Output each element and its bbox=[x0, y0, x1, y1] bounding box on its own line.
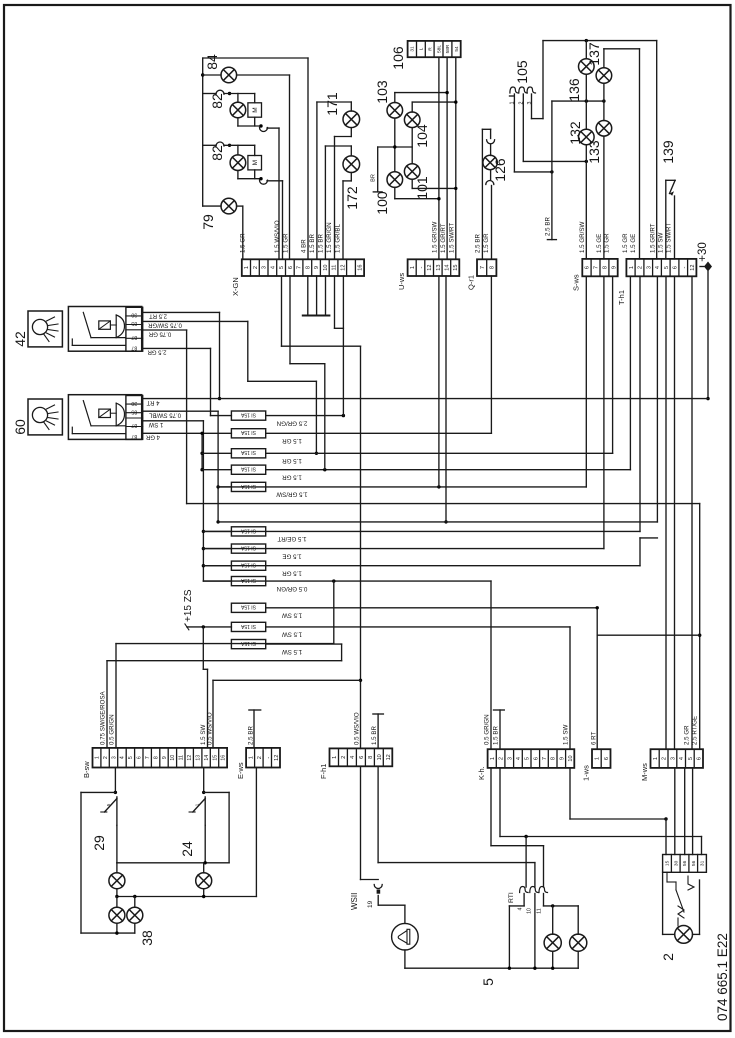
svg-text:11: 11 bbox=[536, 908, 542, 913]
relay 60 wire 1 SW to fuse rows 6-9 bus bbox=[143, 420, 204, 422]
svg-text:3: 3 bbox=[262, 266, 268, 269]
wire T pin 12 drop to M strip pin 5 bbox=[691, 276, 693, 749]
svg-text:1: 1 bbox=[248, 756, 254, 759]
svg-text:8: 8 bbox=[305, 266, 311, 269]
lamp 101 bbox=[404, 164, 420, 180]
wire fuse row 9 branch to B pin 3 bbox=[333, 581, 335, 644]
svg-text:1.5 GR: 1.5 GR bbox=[604, 233, 611, 253]
svg-text:38: 38 bbox=[139, 930, 155, 946]
wire U pin 13 drop to fuse row 5 bbox=[438, 276, 440, 487]
svg-text:87: 87 bbox=[131, 345, 137, 351]
svg-text:1: 1 bbox=[595, 757, 601, 760]
switch 139 bbox=[665, 180, 667, 259]
svg-text:58L: 58L bbox=[436, 45, 442, 53]
svg-text:10: 10 bbox=[170, 755, 176, 761]
svg-text:4: 4 bbox=[679, 757, 685, 760]
connector 106 bbox=[408, 41, 461, 57]
svg-text:106: 106 bbox=[390, 46, 406, 70]
svg-text:SI 15A: SI 15A bbox=[240, 449, 256, 455]
svg-text:10: 10 bbox=[323, 264, 329, 270]
wire lamp 104 top to 54 wire bbox=[411, 102, 413, 112]
wire 105 pin 3 up over to T pin 4 bbox=[531, 94, 533, 119]
svg-text:11: 11 bbox=[179, 755, 185, 760]
wire 105 pin 2 to lamp 132 string bbox=[522, 94, 524, 161]
svg-text:K-h.: K-h. bbox=[477, 766, 486, 780]
svg-text:1: 1 bbox=[653, 757, 659, 760]
svg-text:2: 2 bbox=[257, 756, 263, 759]
svg-text:13: 13 bbox=[436, 264, 442, 270]
svg-text:1-ws: 1-ws bbox=[582, 765, 591, 781]
svg-text:+30: +30 bbox=[697, 242, 709, 262]
motor M of upper unit 82 bbox=[248, 103, 262, 117]
svg-text:1.5 GR: 1.5 GR bbox=[282, 437, 302, 444]
connector strip Q bbox=[477, 259, 496, 276]
svg-text:1.5 SW: 1.5 SW bbox=[658, 233, 665, 253]
motor M of lower unit 82 bbox=[248, 156, 262, 170]
svg-text:+15 ZS: +15 ZS bbox=[183, 589, 194, 622]
svg-text:9: 9 bbox=[162, 756, 168, 759]
svg-text:1.5 BR: 1.5 BR bbox=[371, 726, 378, 745]
svg-text:-: - bbox=[265, 757, 271, 759]
wire Q pin 7 riser bbox=[481, 129, 483, 259]
svg-text:30: 30 bbox=[131, 312, 137, 318]
svg-text:SI 15A: SI 15A bbox=[240, 466, 256, 472]
svg-text:1.5 BR: 1.5 BR bbox=[493, 726, 500, 745]
wire branch 6 RT to 1-ws pin 1 bbox=[597, 634, 700, 636]
wire lamp 171 top to X pin 9 bbox=[350, 102, 352, 111]
fuse SI 15A row 5 bbox=[231, 482, 265, 491]
ground bar 1.5 BR above F strip bbox=[377, 714, 379, 748]
svg-text:4: 4 bbox=[655, 266, 661, 269]
svg-text:6: 6 bbox=[288, 266, 294, 269]
ground stub BR near lamp 172 bbox=[377, 147, 379, 192]
wire right return drop bbox=[204, 791, 229, 793]
wire lamp 171 bottom to X pin 11 bbox=[350, 128, 352, 137]
svg-text:15: 15 bbox=[665, 860, 671, 866]
wire fuse row 8 run with jog to T pin 4 riser bbox=[203, 565, 640, 567]
svg-text:F-h1: F-h1 bbox=[319, 764, 328, 779]
connector strip F bbox=[330, 748, 393, 766]
svg-text:85: 85 bbox=[131, 320, 137, 326]
svg-text:1.5 GE: 1.5 GE bbox=[282, 552, 301, 559]
svg-text:103: 103 bbox=[374, 80, 390, 104]
svg-text:1.5 GE/RT: 1.5 GE/RT bbox=[277, 535, 306, 542]
wire fuse rows 6-9 left stubs bbox=[203, 530, 231, 532]
svg-text:SI 15A: SI 15A bbox=[240, 577, 256, 583]
fuse SI 15A row 3 bbox=[231, 449, 265, 458]
horn WSII bbox=[392, 923, 419, 950]
lamp 100 bbox=[387, 172, 403, 188]
lamp 103 bbox=[387, 103, 403, 119]
fuse SI 15A row 7 bbox=[231, 544, 265, 553]
wire lamp 172 bottom to X pin 12 bbox=[350, 173, 352, 181]
svg-text:SI 15A: SI 15A bbox=[240, 604, 256, 610]
lamp 126 bbox=[490, 145, 492, 156]
connector hook below lamp 126 bbox=[490, 170, 492, 180]
svg-text:54: 54 bbox=[454, 46, 460, 52]
svg-text:2: 2 bbox=[662, 757, 668, 760]
svg-text:12: 12 bbox=[386, 754, 392, 760]
svg-text:42: 42 bbox=[12, 331, 28, 347]
svg-text:12: 12 bbox=[427, 264, 433, 270]
svg-text:2.5 RT/GE: 2.5 RT/GE bbox=[692, 716, 699, 745]
wire lamp 84 to X pin 6 bbox=[237, 74, 290, 76]
wire K pin 2 drop along 836 to relay 2 pin 31 bbox=[499, 768, 501, 837]
connector strip T bbox=[626, 259, 696, 276]
svg-text:10: 10 bbox=[527, 908, 533, 914]
svg-text:0.5 WS/VIO: 0.5 WS/VIO bbox=[207, 712, 214, 745]
fuse SI 15A row 4 bbox=[231, 465, 265, 474]
lamp 2 bbox=[675, 926, 693, 944]
svg-text:SI 15A: SI 15A bbox=[240, 544, 256, 550]
connector hook 19 bbox=[374, 885, 382, 889]
lamp 38 right bbox=[134, 897, 136, 907]
svg-text:4: 4 bbox=[518, 907, 524, 910]
svg-text:13: 13 bbox=[195, 755, 201, 761]
relay 42 wire 2.5 RT to +30 rail bbox=[143, 311, 220, 313]
svg-text:6: 6 bbox=[604, 757, 610, 760]
wire lamp 100 bottom to 58L wire bbox=[394, 187, 396, 198]
wire under lower 82 to X pin 5 bbox=[237, 171, 239, 179]
svg-text:6 RT: 6 RT bbox=[591, 731, 598, 745]
svg-text:6: 6 bbox=[137, 756, 143, 759]
connector strip K bbox=[488, 749, 575, 768]
relay 42 wire 2.5 GR to fuse row 1 bbox=[143, 347, 211, 349]
svg-text:5: 5 bbox=[688, 757, 694, 760]
svg-text:2.5 RT: 2.5 RT bbox=[149, 313, 167, 319]
svg-text:8: 8 bbox=[368, 756, 374, 759]
headlamp icon box of relay 42 bbox=[28, 311, 62, 347]
fuse bus rows 2-4 bbox=[201, 433, 203, 469]
relay 60 body bbox=[68, 395, 141, 440]
svg-text:7: 7 bbox=[480, 266, 486, 269]
wire X pins 11+12 splice drop to fuse row 1 bbox=[334, 276, 336, 328]
svg-text:1.5 GR/RT: 1.5 GR/RT bbox=[440, 223, 447, 253]
wire fuse row 3 run up to S pin 9 bbox=[266, 452, 613, 454]
wire K pin 10 drop to relay 2 pin 15 bbox=[569, 768, 571, 819]
svg-text:1.5 GR: 1.5 GR bbox=[282, 474, 302, 481]
svg-text:1.5 GR: 1.5 GR bbox=[240, 233, 247, 253]
svg-text:4 RT: 4 RT bbox=[146, 399, 159, 405]
wire fuse row 5 run up to S pin 6 bbox=[218, 486, 586, 488]
svg-text:0.5 GR/GN: 0.5 GR/GN bbox=[277, 585, 308, 592]
svg-text:1.5 SW: 1.5 SW bbox=[563, 725, 570, 745]
svg-text:1.5 GR: 1.5 GR bbox=[483, 233, 490, 253]
wire RTI lamps to bus 5 bbox=[552, 951, 554, 968]
svg-text:100: 100 bbox=[374, 191, 390, 215]
fuse block 105 bbox=[510, 87, 519, 93]
svg-text:2.5 BR: 2.5 BR bbox=[545, 217, 552, 236]
svg-text:7: 7 bbox=[594, 266, 600, 269]
svg-text:87: 87 bbox=[131, 334, 137, 340]
svg-text:2: 2 bbox=[638, 266, 644, 269]
wire F strip BR down along 862 to RTI pin 10 bbox=[377, 766, 379, 862]
svg-text:-: - bbox=[419, 267, 425, 269]
svg-text:2: 2 bbox=[660, 953, 676, 961]
svg-text:4: 4 bbox=[350, 756, 356, 759]
svg-text:0.5 GR/GN: 0.5 GR/GN bbox=[484, 714, 491, 745]
wire left return loop bbox=[81, 791, 115, 793]
svg-text:4: 4 bbox=[516, 757, 522, 760]
svg-text:136: 136 bbox=[566, 78, 582, 102]
svg-text:2.5 GR: 2.5 GR bbox=[147, 349, 167, 355]
svg-text:82: 82 bbox=[209, 93, 225, 109]
lamp left of RTI pair bbox=[552, 906, 554, 934]
fuse SI 15A row 8 bbox=[231, 561, 265, 570]
wire top rail of rear lamp cluster bbox=[203, 57, 308, 59]
relay 42 internal contacts bbox=[83, 312, 91, 337]
wire under upper 82 to X pin 5 bbox=[237, 118, 239, 126]
svg-text:1.5 BR: 1.5 BR bbox=[309, 234, 316, 253]
connector hook above lamp 126 bbox=[490, 129, 492, 138]
relay RTI coil hooks bbox=[520, 887, 529, 893]
svg-text:29: 29 bbox=[91, 835, 107, 851]
lamp bus lower bbox=[116, 923, 118, 933]
wire fuse row 12 run jog to B pin 2 bbox=[266, 643, 342, 645]
svg-text:12: 12 bbox=[187, 755, 193, 761]
svg-text:5: 5 bbox=[480, 978, 496, 986]
lamp 172 bbox=[343, 156, 360, 173]
svg-text:S-ws: S-ws bbox=[572, 274, 581, 291]
svg-text:4: 4 bbox=[120, 756, 126, 759]
svg-text:2: 2 bbox=[499, 757, 505, 760]
switch 24 bbox=[204, 797, 206, 826]
wire 106 pin 58L down to U pin 13 bbox=[438, 57, 440, 259]
svg-text:1.5 SW: 1.5 SW bbox=[282, 648, 302, 655]
svg-text:79: 79 bbox=[200, 214, 216, 230]
svg-text:2.5 BR: 2.5 BR bbox=[475, 234, 482, 253]
wire T pin 6 drop to M strip pin 3 bbox=[674, 276, 676, 749]
fuse SI 15A row 10 bbox=[231, 603, 265, 612]
wire branch 0.5 WS/VIO to B pin 14 bbox=[213, 679, 361, 681]
wire RTI pin 10 down to bus 5 bbox=[534, 894, 536, 969]
svg-text:X-GN: X-GN bbox=[231, 277, 240, 296]
svg-text:6: 6 bbox=[585, 266, 591, 269]
wire hook to Q pin 8 bbox=[491, 186, 493, 260]
svg-text:U-ws: U-ws bbox=[397, 273, 406, 290]
svg-text:SI 15A: SI 15A bbox=[240, 623, 256, 629]
node on left rail at lamp 84 bbox=[201, 73, 204, 76]
lamp 133 bbox=[603, 84, 605, 121]
svg-text:1: 1 bbox=[629, 266, 635, 269]
svg-text:31: 31 bbox=[700, 860, 706, 866]
svg-text:9: 9 bbox=[559, 757, 565, 760]
wire fuse row 2 run to Q pin 8 drop bbox=[266, 432, 492, 434]
fuse SI 15A row 12 bbox=[231, 640, 265, 649]
svg-text:T-h1: T-h1 bbox=[617, 290, 626, 305]
wire E strip drop to lamp bus bbox=[255, 768, 257, 897]
svg-text:105: 105 bbox=[514, 60, 530, 84]
connector strip B bbox=[93, 748, 228, 768]
lamp 136 bbox=[585, 41, 587, 59]
wire lamp 79 to X pin 1 bbox=[237, 205, 243, 207]
lamp 171 bbox=[343, 111, 360, 128]
svg-text:5: 5 bbox=[106, 803, 111, 806]
relay 42 body bbox=[68, 307, 141, 352]
svg-text:7: 7 bbox=[145, 756, 151, 759]
svg-text:SI 15A: SI 15A bbox=[240, 483, 256, 489]
wire fuse row 10 run to 1-ws riser bbox=[266, 607, 598, 609]
svg-text:87: 87 bbox=[131, 422, 137, 428]
svg-text:1: 1 bbox=[194, 803, 199, 806]
svg-text:1.5 GE: 1.5 GE bbox=[596, 234, 603, 253]
svg-text:10: 10 bbox=[377, 754, 383, 760]
svg-text:1: 1 bbox=[94, 756, 100, 759]
svg-text:1.5 GR/BL: 1.5 GR/BL bbox=[335, 224, 342, 253]
svg-text:171: 171 bbox=[324, 92, 340, 116]
wire X pin 5 WS/VIO long run to F strip and horn bbox=[281, 276, 283, 346]
svg-text:126: 126 bbox=[492, 158, 508, 182]
svg-text:14: 14 bbox=[204, 755, 210, 761]
svg-text:16: 16 bbox=[358, 264, 364, 270]
svg-text:84: 84 bbox=[204, 54, 220, 70]
wire X pin 6 drop to fuse row 4 bbox=[289, 276, 291, 364]
svg-text:BR: BR bbox=[371, 174, 377, 182]
svg-text:56: 56 bbox=[682, 860, 688, 866]
wire switch 24 to lamp bus bbox=[204, 825, 206, 862]
svg-text:4: 4 bbox=[270, 266, 276, 269]
svg-text:31: 31 bbox=[410, 46, 416, 52]
connector strip M bbox=[651, 749, 704, 768]
svg-text:1.5 GR/SW: 1.5 GR/SW bbox=[432, 222, 439, 253]
lamp 137 bbox=[596, 68, 612, 84]
svg-text:1.5 SW/RT: 1.5 SW/RT bbox=[666, 223, 673, 253]
svg-text:9: 9 bbox=[314, 266, 320, 269]
wire relay 2 to lamp 2 bbox=[699, 880, 701, 934]
ground bar 2.5 BR above E strip bbox=[253, 710, 255, 748]
svg-text:0.75 SW/GR: 0.75 SW/GR bbox=[148, 322, 182, 328]
svg-text:0.75 SW/BL: 0.75 SW/BL bbox=[148, 411, 181, 417]
wire RTI pin 11 to lamp pair bbox=[543, 894, 545, 906]
wire 106 pin 58R down to U pin 14 bbox=[446, 57, 448, 259]
lamp 132 bbox=[585, 75, 587, 129]
svg-text:60: 60 bbox=[12, 419, 28, 435]
svg-text:1: 1 bbox=[490, 757, 496, 760]
wire RTI pin 4 down to bus 5 bbox=[523, 894, 525, 906]
wire switch 29 to lamp bus bbox=[116, 825, 118, 862]
svg-text:WSII: WSII bbox=[350, 893, 359, 910]
svg-text:1: 1 bbox=[244, 266, 250, 269]
wire +30 bus down to feed rail bbox=[707, 272, 709, 399]
svg-text:1.5 GR: 1.5 GR bbox=[283, 233, 290, 253]
svg-text:3: 3 bbox=[646, 266, 652, 269]
lamp left upper bbox=[116, 863, 118, 873]
wire fuse row 11 run to K pin 10 drop bbox=[266, 626, 570, 628]
wire fuse row 9 run to K pin 1 drop bbox=[203, 580, 491, 582]
svg-text:E-ws: E-ws bbox=[236, 762, 245, 779]
svg-text:14: 14 bbox=[444, 264, 450, 270]
svg-text:0.5 GR/GN: 0.5 GR/GN bbox=[109, 714, 116, 745]
relay 60 wire 4 RT +30 feed rail bbox=[143, 398, 708, 400]
wire link row to T pin 4 bbox=[218, 521, 657, 523]
svg-text:3: 3 bbox=[111, 756, 117, 759]
ground bar 1.5 BR above K strip bbox=[499, 710, 501, 749]
svg-text:SI 15A: SI 15A bbox=[240, 429, 256, 435]
svg-text:1.5 GE: 1.5 GE bbox=[630, 234, 637, 253]
svg-text:15: 15 bbox=[212, 755, 218, 761]
svg-text:9: 9 bbox=[611, 266, 617, 269]
svg-text:10: 10 bbox=[568, 755, 574, 761]
wire X pins 8-10 BR splice bar bbox=[307, 276, 309, 316]
lamp 38 left bbox=[116, 897, 118, 907]
svg-text:12: 12 bbox=[274, 755, 280, 761]
relay 60 internal contacts bbox=[83, 401, 91, 426]
svg-text:1.5 GR: 1.5 GR bbox=[282, 570, 302, 577]
wire K pin 1 drop to RTI pin 11 bbox=[490, 768, 492, 846]
svg-text:0.75 GR: 0.75 GR bbox=[148, 330, 171, 336]
relay 60 pin boxes bbox=[126, 396, 143, 440]
switch 29 bbox=[116, 797, 118, 826]
svg-text:137: 137 bbox=[586, 42, 602, 66]
svg-text:7: 7 bbox=[542, 757, 548, 760]
lamp right upper bbox=[203, 863, 205, 873]
svg-text:5: 5 bbox=[279, 266, 285, 269]
svg-text:19: 19 bbox=[367, 900, 374, 908]
svg-text:139: 139 bbox=[660, 140, 676, 164]
connector strip S bbox=[582, 259, 617, 276]
svg-text:11: 11 bbox=[332, 265, 338, 271]
wire hook 19 to horn bbox=[377, 896, 379, 906]
wire lamps 103/104 bottoms to BR splice bbox=[394, 118, 396, 172]
svg-text:074 665.1 E22: 074 665.1 E22 bbox=[715, 933, 730, 1021]
svg-text:0.5 WS/VIO: 0.5 WS/VIO bbox=[354, 712, 361, 745]
svg-text:1.5 GR/SW: 1.5 GR/SW bbox=[276, 491, 307, 498]
wire fuse row 11 branch to B pin 13 bbox=[202, 627, 204, 669]
svg-text:4 BR: 4 BR bbox=[301, 239, 308, 253]
svg-text:5: 5 bbox=[664, 266, 670, 269]
wire branch to RTI pin 4 bbox=[525, 837, 527, 888]
relay 42 wire 0.75 SW/GR staircase to fuse row 3 bbox=[143, 320, 248, 322]
wire T pin 5 drop to M strip pin 2 bbox=[665, 276, 667, 749]
svg-text:3: 3 bbox=[670, 757, 676, 760]
wire fuse row 5 left stub bbox=[218, 486, 231, 488]
svg-text:L: L bbox=[419, 47, 425, 50]
wire lamp 172 top to X pin 10 bbox=[350, 146, 352, 156]
lamp 84 bbox=[203, 74, 221, 76]
svg-text:8: 8 bbox=[551, 757, 557, 760]
svg-text:4 GR: 4 GR bbox=[145, 434, 160, 440]
headlamp icon box of relay 60 bbox=[28, 399, 62, 435]
svg-text:2.5 GR: 2.5 GR bbox=[684, 725, 691, 745]
fuse SI 15A row 2 bbox=[231, 429, 265, 438]
svg-text:Q-r1: Q-r1 bbox=[467, 275, 476, 290]
svg-text:16: 16 bbox=[221, 755, 227, 761]
svg-text:6: 6 bbox=[697, 757, 703, 760]
svg-text:1.5 SW: 1.5 SW bbox=[282, 612, 302, 619]
svg-text:1.5 SW/RT: 1.5 SW/RT bbox=[449, 223, 456, 253]
wire lamp 137 top over to T pin 2 bbox=[603, 49, 605, 67]
wire U pin 14 drop to T pin 4 link bbox=[445, 276, 447, 522]
svg-text:8: 8 bbox=[490, 266, 496, 269]
wire +15 ZS feed into fuse row 11 bbox=[187, 626, 232, 628]
svg-text:1.5 GR/SW: 1.5 GR/SW bbox=[579, 222, 586, 253]
svg-text:15: 15 bbox=[453, 264, 459, 270]
svg-text:58R: 58R bbox=[445, 44, 451, 53]
wire lamp 101 bottom to 54 wire bbox=[411, 179, 413, 188]
svg-text:2: 2 bbox=[253, 266, 259, 269]
lamp unit 82 upper with motor bbox=[203, 93, 216, 95]
svg-text:1.5 WS/VIO: 1.5 WS/VIO bbox=[274, 220, 281, 253]
svg-text:RTI: RTI bbox=[508, 892, 515, 903]
connector strip 1-ws bbox=[592, 749, 611, 768]
svg-text:2: 2 bbox=[341, 756, 347, 759]
svg-text:1: 1 bbox=[332, 756, 338, 759]
lamp 79 bbox=[203, 205, 221, 207]
svg-text:1.5 GR/RT: 1.5 GR/RT bbox=[650, 223, 657, 253]
svg-text:12: 12 bbox=[340, 264, 346, 270]
relay 42 pin boxes bbox=[126, 307, 143, 351]
fuse SI 15A row 11 bbox=[231, 622, 265, 631]
